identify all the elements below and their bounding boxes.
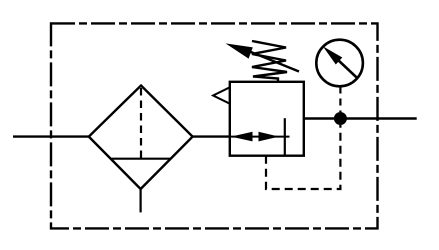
- pilot line (dashed feedback path): [266, 125, 340, 189]
- wire: filter to regulator: [193, 135, 230, 137]
- pressure gauge G1 needle: [323, 46, 357, 77]
- regulator R1 (valve body box): [230, 82, 304, 156]
- regulator R1 adjustability arrow: [226, 43, 300, 71]
- regulator R1 relief vent triangle: [213, 87, 230, 103]
- filter F1 element (dashed center line): [140, 88, 142, 158]
- regulator R1 adjustment spring: [252, 41, 287, 82]
- junction node (outlet tee dot): [334, 112, 347, 125]
- wire: regulator outlet line (right, port 2): [304, 117, 417, 119]
- regulator R1 flow-path double arrow: [231, 132, 290, 142]
- wire: inlet port line (left, port 1): [13, 135, 89, 137]
- filter F1 condensate baffle (chord line): [112, 158, 171, 160]
- gauge sensing line (dashed): [339, 87, 341, 113]
- pressure gauge G1 (dial circle): [316, 40, 363, 87]
- enclosure border (dash-dot assembly boundary): [51, 23, 378, 228]
- filter F1 drain line: [140, 189, 142, 212]
- regulator R1 inner seat line: [284, 118, 286, 156]
- filter F1 (diamond body): [89, 86, 193, 190]
